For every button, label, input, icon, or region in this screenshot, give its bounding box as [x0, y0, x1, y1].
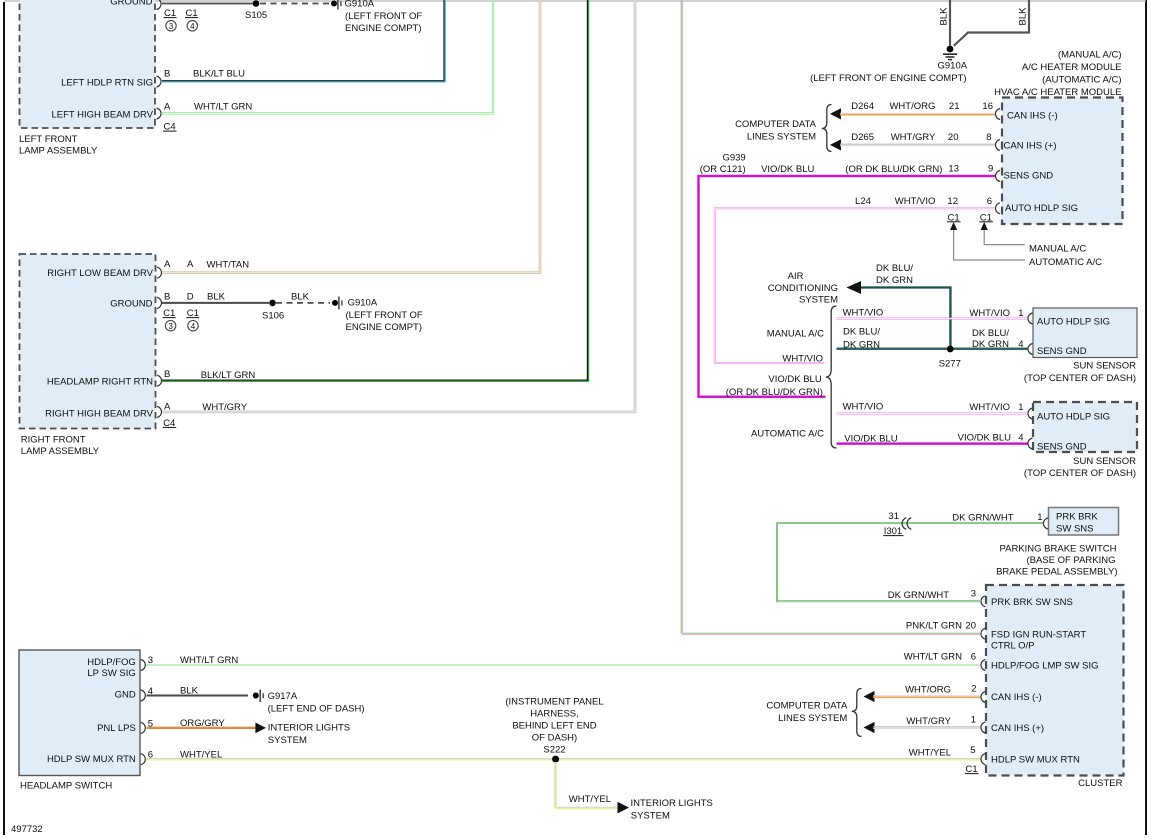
- svg-text:2: 2: [971, 684, 976, 695]
- splice S105: [245, 0, 267, 21]
- svg-text:WHT/LT GRN: WHT/LT GRN: [194, 102, 252, 113]
- svg-text:WHT/VIO: WHT/VIO: [969, 402, 1010, 413]
- pin bracket cluster CAN IHS (+): [981, 722, 986, 733]
- off-page arrow interior lights system (pnl lps): [255, 723, 350, 746]
- svg-text:DK GRN: DK GRN: [876, 275, 913, 286]
- svg-text:HDLP SW MUX RTN: HDLP SW MUX RTN: [991, 754, 1080, 765]
- svg-text:D: D: [187, 291, 194, 302]
- svg-text:4: 4: [1018, 433, 1023, 444]
- svg-text:1: 1: [1037, 512, 1042, 523]
- svg-text:HEADLAMP RIGHT RTN: HEADLAMP RIGHT RTN: [47, 377, 153, 388]
- off-page arrow (CAN IHS +): [830, 139, 841, 150]
- svg-text:1: 1: [971, 715, 976, 726]
- svg-text:WHT/VIO: WHT/VIO: [895, 196, 936, 207]
- svg-text:HARNESS,: HARNESS,: [530, 709, 579, 720]
- svg-text:VIO/DK BLU: VIO/DK BLU: [844, 434, 897, 445]
- pin bracket cluster PRK BRK SW SNS: [981, 596, 986, 607]
- brace computer data lines (cluster): [852, 689, 862, 737]
- brace computer data lines (top): [822, 105, 832, 152]
- svg-text:L24: L24: [855, 196, 871, 207]
- svg-text:VIO/DK BLU: VIO/DK BLU: [761, 164, 814, 175]
- svg-text:S106: S106: [262, 311, 284, 322]
- ground connector G917A: [253, 689, 365, 714]
- svg-text:COMPUTER DATA: COMPUTER DATA: [735, 119, 817, 130]
- svg-text:S105: S105: [245, 10, 267, 21]
- page number: [11, 824, 43, 835]
- svg-text:HVAC A/C HEATER MODULE: HVAC A/C HEATER MODULE: [994, 87, 1121, 98]
- heater module pin names: [1004, 110, 1079, 214]
- svg-text:HDLP/FOG LMP SW SIG: HDLP/FOG LMP SW SIG: [991, 661, 1099, 672]
- wire DK BLU/DK GRN to sun sensor 1 pin 4: [837, 348, 1029, 349]
- svg-text:HDLP/FOG: HDLP/FOG: [87, 657, 136, 668]
- svg-text:5: 5: [148, 718, 153, 729]
- brace manual/automatic a/c split: [826, 306, 837, 448]
- svg-text:OF DASH): OF DASH): [532, 733, 577, 744]
- pin bracket AUTO HDLP SIG heater: [995, 203, 1000, 214]
- footnote circle 3 (left lamp): [166, 21, 176, 31]
- labels computer data lines cluster: [766, 701, 848, 725]
- svg-text:BLK: BLK: [291, 292, 310, 303]
- wire ORG/GRY pnl lps: [147, 727, 257, 728]
- wire GROUND BLK from left lamp to S105: [162, 3, 253, 5]
- svg-text:G910A: G910A: [345, 0, 375, 9]
- svg-text:AUTOMATIC A/C: AUTOMATIC A/C: [751, 429, 824, 440]
- svg-text:BLK: BLK: [180, 686, 199, 697]
- svg-text:6: 6: [971, 652, 976, 663]
- wire DK BLU/DK GRN to air conditioning system: [861, 287, 951, 346]
- ground G910A symbol (engine compt): [810, 46, 968, 84]
- page border top: [4, 0, 1146, 2]
- svg-text:31: 31: [888, 511, 899, 522]
- svg-text:(LEFT FRONT OF: (LEFT FRONT OF: [345, 11, 422, 22]
- off-page arrow cluster CAN IHS (-): [864, 691, 875, 702]
- labels AUTO HDLP SIG row: [855, 196, 993, 223]
- svg-text:WHT/GRY: WHT/GRY: [891, 132, 936, 143]
- svg-text:SENS GND: SENS GND: [1037, 346, 1087, 357]
- svg-text:PRK BRK: PRK BRK: [1056, 512, 1098, 523]
- svg-text:CAN IHS (-): CAN IHS (-): [991, 692, 1042, 703]
- wire WHT/VIO to sun sensor 1 pin 1: [837, 318, 1028, 320]
- svg-text:SYSTEM: SYSTEM: [268, 735, 307, 746]
- svg-text:16: 16: [982, 101, 993, 112]
- svg-text:G917A: G917A: [268, 691, 298, 702]
- off-page arrow interior lights system (S222): [569, 794, 713, 822]
- svg-text:INTERIOR LIGHTS: INTERIOR LIGHTS: [631, 798, 713, 809]
- labels manual a/c wires: [726, 308, 1024, 399]
- svg-text:4: 4: [190, 22, 195, 31]
- svg-text:MANUAL A/C: MANUAL A/C: [1029, 244, 1086, 255]
- wire WHT/TAN right low beam drv: [162, 0, 540, 273]
- svg-text:4: 4: [191, 322, 196, 331]
- svg-text:WHT/YEL: WHT/YEL: [909, 748, 951, 759]
- svg-text:4: 4: [148, 686, 153, 697]
- svg-text:3: 3: [971, 589, 976, 600]
- page border left: [3, 2, 5, 835]
- off-page arrow (CAN IHS -): [830, 108, 841, 119]
- A/C heater module header labels: [994, 50, 1121, 99]
- svg-text:LEFT HDLP RTN SIG: LEFT HDLP RTN SIG: [61, 78, 153, 89]
- svg-text:4: 4: [1018, 339, 1023, 350]
- svg-text:D264: D264: [851, 101, 874, 112]
- headlamp switch pin bracket 6: [141, 754, 146, 765]
- svg-text:(LEFT FRONT OF: (LEFT FRONT OF: [346, 310, 423, 321]
- connector box: A/C HEATER MODULE: [1002, 98, 1123, 225]
- svg-text:SENS GND: SENS GND: [1004, 170, 1054, 181]
- svg-text:6: 6: [148, 750, 153, 761]
- wire BLK dashed to G910A (right lamp): [276, 302, 330, 304]
- pin bracket cluster HDLP SW MUX RTN: [981, 754, 986, 765]
- svg-text:A: A: [187, 259, 194, 270]
- svg-text:(MANUAL A/C): (MANUAL A/C): [1058, 50, 1122, 61]
- wire BLK second vertical with jog: [954, 0, 1029, 46]
- wire BLK/LT GRN headlamp right rtn: [162, 0, 589, 381]
- svg-text:WHT/LT GRN: WHT/LT GRN: [904, 652, 962, 663]
- svg-text:BLK: BLK: [1018, 7, 1029, 26]
- svg-text:ENGINE COMPT): ENGINE COMPT): [345, 23, 422, 34]
- wire WHT/ORG D264: [840, 113, 996, 115]
- labels cluster prk brk row: [888, 589, 976, 602]
- wire WHT/YEL S222 branch to interior lights: [555, 762, 618, 808]
- svg-text:G939: G939: [722, 153, 745, 164]
- svg-text:497732: 497732: [11, 824, 43, 835]
- svg-text:(LEFT END OF DASH): (LEFT END OF DASH): [268, 704, 365, 715]
- svg-text:LEFT FRONT: LEFT FRONT: [19, 134, 78, 145]
- off-page arrow air conditioning system: [768, 263, 914, 306]
- pin bracket cluster HDLP/FOG: [981, 660, 986, 671]
- svg-text:CONDITIONING: CONDITIONING: [768, 283, 838, 294]
- svg-text:WHT/VIO: WHT/VIO: [782, 354, 823, 365]
- off-page arrow cluster CAN IHS (+): [864, 722, 875, 733]
- page border right: [1145, 0, 1147, 835]
- svg-text:DK GRN/WHT: DK GRN/WHT: [952, 513, 1013, 524]
- svg-text:B: B: [164, 69, 170, 80]
- connector box: RIGHT FRONT LAMP ASSEMBLY: [20, 254, 156, 429]
- svg-text:BLK/LT GRN: BLK/LT GRN: [201, 370, 256, 381]
- svg-text:BRAKE PEDAL ASSEMBLY): BRAKE PEDAL ASSEMBLY): [996, 567, 1117, 578]
- pin bracket A left lamp: [157, 108, 162, 119]
- pin bracket PRK BRK SW SNS pin 1: [1043, 518, 1048, 529]
- connector box: LEFT FRONT LAMP ASSEMBLY: [20, 0, 156, 128]
- pin bracket sun sensor 2 pin 4: [1028, 438, 1033, 449]
- svg-text:GROUND: GROUND: [110, 0, 152, 8]
- connector box: HEADLAMP SWITCH: [19, 650, 140, 776]
- svg-text:(LEFT FRONT OF ENGINE COMPT): (LEFT FRONT OF ENGINE COMPT): [810, 73, 966, 84]
- svg-text:(OR C121): (OR C121): [700, 164, 746, 175]
- wire DK GRN/WHT parking brake switch: [777, 523, 1044, 601]
- svg-text:HDLP SW MUX RTN: HDLP SW MUX RTN: [47, 754, 136, 765]
- svg-text:A/C HEATER MODULE: A/C HEATER MODULE: [1022, 62, 1122, 73]
- svg-text:SYSTEM: SYSTEM: [799, 295, 838, 306]
- svg-text:BEHIND LEFT END: BEHIND LEFT END: [512, 721, 596, 732]
- svg-text:BLK: BLK: [939, 7, 950, 26]
- svg-text:AUTO HDLP SIG: AUTO HDLP SIG: [1005, 203, 1078, 214]
- svg-text:20: 20: [948, 132, 959, 143]
- labels automatic a/c wires: [751, 402, 1024, 445]
- svg-text:WHT/YEL: WHT/YEL: [180, 750, 222, 761]
- svg-text:(BASE OF PARKING: (BASE OF PARKING: [1026, 555, 1115, 566]
- svg-text:1: 1: [1018, 402, 1023, 413]
- svg-text:CAN IHS (-): CAN IHS (-): [1007, 110, 1058, 121]
- pin bracket B left lamp: [157, 76, 162, 87]
- svg-text:WHT/GRY: WHT/GRY: [202, 402, 247, 413]
- svg-text:G910A: G910A: [348, 298, 378, 309]
- instrument panel note: [505, 697, 603, 756]
- connector box: SUN SENSOR (automatic): [1033, 402, 1137, 452]
- svg-text:(OR DK BLU/DK GRN): (OR DK BLU/DK GRN): [845, 164, 942, 175]
- pin bracket sun sensor 1 pin 4: [1028, 344, 1033, 355]
- svg-text:LEFT HIGH BEAM DRV: LEFT HIGH BEAM DRV: [51, 110, 153, 121]
- svg-text:DK BLU/: DK BLU/: [972, 328, 1009, 339]
- C1 callout arrow automatic a/c: [950, 222, 1102, 268]
- pin bracket GROUND left lamp (top, clipped): [157, 0, 162, 10]
- pin bracket A right lamp (high beam): [157, 406, 162, 417]
- svg-text:SW SNS: SW SNS: [1056, 524, 1093, 535]
- svg-text:AUTOMATIC A/C: AUTOMATIC A/C: [1029, 257, 1102, 268]
- svg-text:RIGHT FRONT: RIGHT FRONT: [21, 435, 86, 446]
- svg-text:21: 21: [949, 101, 960, 112]
- ground connector G910A (right lamp row): [332, 297, 423, 334]
- svg-text:ENGINE COMPT): ENGINE COMPT): [346, 322, 423, 333]
- C1 callout arrow manual a/c: [981, 222, 1087, 255]
- svg-text:(INSTRUMENT PANEL: (INSTRUMENT PANEL: [505, 697, 603, 708]
- sun sensor 1 pin names + label: [1024, 316, 1136, 384]
- svg-text:3: 3: [169, 22, 174, 31]
- connector box: PRK BRK SW SNS (parking brake switch): [1049, 508, 1119, 536]
- svg-text:INTERIOR LIGHTS: INTERIOR LIGHTS: [268, 723, 350, 734]
- svg-text:WHT/GRY: WHT/GRY: [906, 716, 951, 727]
- svg-text:BLK: BLK: [207, 292, 226, 303]
- labels SENS GND row: [700, 153, 994, 176]
- svg-text:(TOP CENTER OF DASH): (TOP CENTER OF DASH): [1024, 373, 1136, 384]
- wire BLK right lamp ground to S106: [162, 302, 269, 304]
- svg-text:SUN SENSOR: SUN SENSOR: [1073, 361, 1136, 372]
- labels left lamp assembly: [110, 0, 198, 19]
- svg-text:CTRL O/P: CTRL O/P: [991, 641, 1034, 652]
- svg-text:9: 9: [988, 163, 993, 174]
- svg-text:WHT/ORG: WHT/ORG: [905, 684, 951, 695]
- svg-text:20: 20: [965, 621, 976, 632]
- svg-text:5: 5: [970, 745, 975, 756]
- svg-text:12: 12: [947, 196, 958, 207]
- pin bracket CAN IHS (+) heater: [995, 140, 1000, 151]
- footnote circle 3 (right lamp): [165, 321, 175, 331]
- svg-text:AUTO HDLP SIG: AUTO HDLP SIG: [1037, 316, 1110, 327]
- wire WHT/LT GRN left high beam drv: [162, 0, 493, 113]
- svg-text:WHT/ORG: WHT/ORG: [889, 101, 935, 112]
- svg-text:CAN IHS (+): CAN IHS (+): [991, 723, 1044, 734]
- svg-text:1: 1: [1018, 308, 1023, 319]
- svg-text:(TOP CENTER OF DASH): (TOP CENTER OF DASH): [1024, 468, 1136, 479]
- svg-text:SUN SENSOR: SUN SENSOR: [1073, 456, 1136, 467]
- svg-text:S277: S277: [939, 359, 961, 370]
- wire BLK gnd to G917A: [147, 695, 249, 697]
- svg-text:(OR DK BLU/DK GRN): (OR DK BLU/DK GRN): [726, 387, 823, 398]
- wire PNK/LT GRN fsd ign run-start: [681, 0, 980, 634]
- svg-text:CLUSTER: CLUSTER: [1078, 778, 1122, 789]
- svg-text:3: 3: [168, 322, 173, 331]
- svg-text:RIGHT HIGH BEAM DRV: RIGHT HIGH BEAM DRV: [45, 409, 154, 420]
- wire BLK/LT BLU left hdlp rtn sig: [162, 0, 445, 82]
- pin bracket sun sensor 1 pin 1: [1028, 313, 1033, 324]
- svg-text:(AUTOMATIC A/C): (AUTOMATIC A/C): [1042, 75, 1121, 86]
- wire WHT/GRY right high beam drv: [162, 0, 635, 412]
- in-line connector I301: [883, 511, 911, 537]
- headlamp switch pin bracket 4: [141, 690, 146, 701]
- pin bracket cluster CAN IHS (-): [981, 692, 986, 703]
- svg-text:LINES SYSTEM: LINES SYSTEM: [778, 713, 847, 724]
- svg-text:AUTO HDLP SIG: AUTO HDLP SIG: [1037, 412, 1110, 423]
- svg-text:DK GRN: DK GRN: [972, 339, 1009, 350]
- splice S277: [939, 346, 961, 370]
- svg-text:B: B: [164, 369, 170, 380]
- svg-text:WHT/VIO: WHT/VIO: [843, 402, 884, 413]
- connector box: CLUSTER: [986, 585, 1124, 776]
- svg-text:RIGHT LOW BEAM DRV: RIGHT LOW BEAM DRV: [47, 268, 153, 279]
- svg-text:LINES SYSTEM: LINES SYSTEM: [747, 132, 816, 143]
- svg-text:WHT/YEL: WHT/YEL: [569, 794, 611, 805]
- svg-text:PNK/LT GRN: PNK/LT GRN: [906, 621, 962, 632]
- svg-text:G910A: G910A: [938, 61, 968, 72]
- footnote circle 4 (left lamp): [187, 21, 197, 31]
- wire WHT/VIO L24 to AUTO HDLP SIG: [715, 208, 996, 363]
- svg-text:13: 13: [948, 163, 959, 174]
- pin bracket B right lamp (ground): [157, 297, 162, 308]
- pin bracket A right lamp (low beam): [157, 267, 162, 278]
- wire WHT/VIO to sun sensor 2 pin 1: [837, 413, 1028, 415]
- svg-text:LAMP ASSEMBLY: LAMP ASSEMBLY: [19, 146, 98, 157]
- headlamp switch pin bracket 3: [141, 660, 146, 671]
- svg-text:AIR: AIR: [788, 271, 804, 282]
- svg-text:MANUAL A/C: MANUAL A/C: [767, 329, 824, 340]
- svg-text:PNL LPS: PNL LPS: [97, 723, 136, 734]
- headlamp switch pin names: [20, 655, 238, 792]
- wire WHT/GRY D265: [840, 144, 996, 146]
- svg-text:B: B: [164, 291, 170, 302]
- svg-text:A: A: [164, 401, 171, 412]
- cluster pin names + label: [991, 597, 1123, 789]
- svg-text:SENS GND: SENS GND: [1037, 441, 1087, 452]
- footnote circle 4 (right lamp): [188, 321, 198, 331]
- svg-text:GROUND: GROUND: [110, 299, 152, 310]
- svg-text:WHT/VIO: WHT/VIO: [843, 308, 884, 319]
- svg-text:WHT/LT GRN: WHT/LT GRN: [180, 655, 238, 666]
- svg-text:SYSTEM: SYSTEM: [631, 811, 670, 822]
- wire WHT/LT GRN hdlp/fog lamp sw sig: [147, 664, 981, 666]
- pin bracket CAN IHS (-) heater: [995, 109, 1000, 120]
- svg-text:3: 3: [148, 655, 153, 666]
- headlamp switch pin bracket 5: [141, 722, 146, 733]
- svg-text:D265: D265: [851, 132, 874, 143]
- connector box: SUN SENSOR (manual): [1033, 308, 1137, 358]
- wire WHT/YEL hdlp sw mux rtn: [147, 759, 982, 760]
- pin bracket cluster FSD IGN: [981, 628, 986, 639]
- pin bracket SENS GND heater: [995, 171, 1000, 182]
- svg-text:LAMP ASSEMBLY: LAMP ASSEMBLY: [21, 446, 100, 457]
- svg-text:ORG/GRY: ORG/GRY: [180, 718, 225, 729]
- wire VIO/DK BLU G939 to SENS GND: [699, 176, 997, 397]
- svg-text:S222: S222: [543, 745, 565, 756]
- svg-text:FSD IGN RUN-START: FSD IGN RUN-START: [991, 629, 1086, 640]
- wire BLK vertical to ground G910A (top right): [939, 0, 951, 46]
- svg-text:PRK BRK SW SNS: PRK BRK SW SNS: [991, 597, 1073, 608]
- wire VIO/DK BLU to sun sensor 2 pin 4: [837, 442, 1028, 445]
- wire BLK dashed to G910A: [260, 3, 330, 5]
- labels computer data lines top: [735, 101, 993, 143]
- pin bracket B right lamp (rtn): [157, 375, 162, 386]
- svg-text:BLK/LT BLU: BLK/LT BLU: [193, 69, 245, 80]
- svg-text:WHT/TAN: WHT/TAN: [207, 260, 250, 271]
- svg-text:DK GRN/WHT: DK GRN/WHT: [888, 590, 949, 601]
- svg-text:DK BLU/: DK BLU/: [843, 327, 880, 338]
- svg-text:A: A: [164, 102, 171, 113]
- svg-text:VIO/DK BLU: VIO/DK BLU: [958, 433, 1011, 444]
- svg-text:COMPUTER DATA: COMPUTER DATA: [766, 701, 848, 712]
- pin bracket sun sensor 2 pin 1: [1028, 408, 1033, 419]
- wire WHT/GRY cluster can ihs +: [873, 727, 981, 729]
- svg-text:LP SW SIG: LP SW SIG: [87, 668, 135, 679]
- svg-text:CAN IHS (+): CAN IHS (+): [1004, 140, 1057, 151]
- svg-text:GND: GND: [115, 690, 136, 701]
- svg-text:DK BLU/: DK BLU/: [876, 263, 913, 274]
- sun sensor 2 pin names + label: [1024, 412, 1136, 480]
- splice S106: [262, 300, 284, 322]
- svg-text:8: 8: [986, 132, 991, 143]
- splice S222: [552, 756, 559, 763]
- svg-text:PARKING BRAKE SWITCH: PARKING BRAKE SWITCH: [999, 544, 1116, 555]
- svg-text:VIO/DK BLU: VIO/DK BLU: [768, 374, 821, 385]
- svg-text:HEADLAMP SWITCH: HEADLAMP SWITCH: [20, 781, 112, 792]
- svg-text:A: A: [164, 259, 171, 270]
- wire WHT/ORG cluster can ihs -: [873, 696, 981, 698]
- svg-text:DK GRN: DK GRN: [843, 340, 880, 351]
- svg-text:WHT/VIO: WHT/VIO: [969, 308, 1010, 319]
- ground connector G910A (left lamp row): [331, 0, 422, 34]
- labels parking brake switch: [952, 512, 1117, 578]
- labels right lamp assembly: [47, 259, 309, 319]
- svg-text:6: 6: [987, 196, 992, 207]
